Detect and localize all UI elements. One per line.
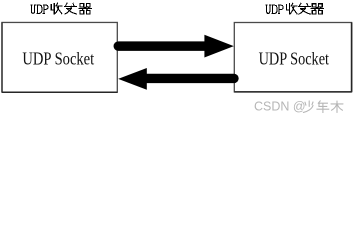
label: left UDP收发器 (UDP transceiver) [30, 3, 91, 14]
arrow: receive, right box to left box [118, 68, 234, 90]
watermark: CSDN @少年木 [254, 99, 343, 113]
arrow: send, left box to right box [118, 35, 234, 58]
box: right UDP Socket [234, 22, 351, 92]
svg-text:UDP Socket: UDP Socket [22, 48, 94, 68]
svg-text:CSDN @: CSDN @ [254, 99, 306, 113]
svg-text:UDP Socket: UDP Socket [259, 48, 329, 68]
box: left UDP Socket [2, 22, 117, 92]
label: right UDP收发器 (UDP transceiver) [265, 3, 323, 14]
